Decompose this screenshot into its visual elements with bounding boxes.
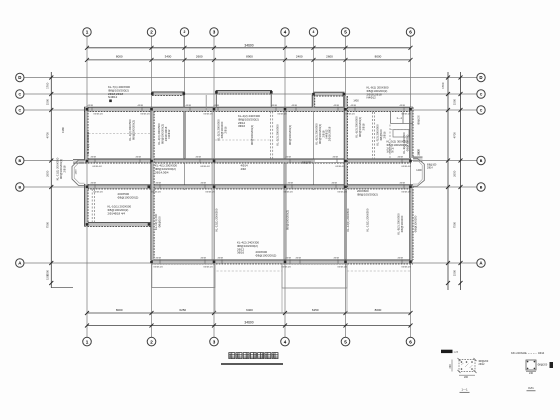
- svg-text:4Φ18: 4Φ18: [296, 257, 302, 260]
- svg-text:4Φ18: 4Φ18: [333, 156, 339, 159]
- left dimension line: [50, 72, 52, 288]
- svg-text:2: 2: [150, 339, 153, 344]
- right axis circle B: [477, 156, 485, 164]
- svg-text:1380: 1380: [61, 127, 65, 133]
- bay window left on axis 1: [72, 160, 85, 185]
- svg-text:4Φ18: 4Φ18: [88, 104, 94, 107]
- svg-text:4Φ14: 4Φ14: [538, 352, 545, 355]
- partition wall axis 3 middle: [212, 163, 214, 185]
- dashed beam line below bar end x=272: [271, 111, 273, 159]
- svg-text:4Φ18: 4Φ18: [218, 257, 224, 260]
- svg-text:6Φ18 4/4: 6Φ18 4/4: [282, 265, 292, 268]
- svg-text:1: 1: [86, 30, 89, 35]
- svg-text:400: 400: [449, 364, 452, 369]
- roof beam bar on axis 1/C left: [152, 92, 185, 96]
- drawing title (hanzi strokes): [229, 352, 279, 359]
- beam on axis 2 vertical: [151, 111, 154, 260]
- svg-text:6Φ18 4/4: 6Φ18 4/4: [336, 165, 346, 168]
- svg-text:6Φ18 4/4: 6Φ18 4/4: [338, 265, 348, 268]
- rotated text axis 2 below B: [154, 213, 161, 230]
- top dimension line 1: [87, 47, 411, 49]
- svg-text:2: 2: [184, 30, 186, 34]
- svg-text:4: 4: [284, 339, 287, 344]
- svg-text:B: B: [480, 159, 483, 163]
- rotated text along axis 4a: [315, 123, 329, 145]
- rotated text room 5-6 middle: [376, 124, 387, 146]
- left dimension closing line bottom: [51, 287, 73, 289]
- svg-text:5: 5: [344, 339, 347, 344]
- svg-text:2650: 2650: [452, 170, 456, 177]
- dashed stair beam line: [92, 189, 94, 223]
- dashed line below beam A right: [347, 270, 410, 272]
- detail 1 rebar dots: [461, 361, 473, 370]
- top axis circle 6: [406, 28, 414, 36]
- top axis circle 1: [83, 28, 91, 36]
- svg-text:4Φ18: 4Φ18: [156, 257, 162, 260]
- svg-text:8000: 8000: [116, 308, 123, 312]
- svg-text:1—1: 1—1: [397, 116, 403, 120]
- svg-text:6Φ18 4/4: 6Φ18 4/4: [93, 165, 103, 168]
- top sub-axis circle: [309, 28, 317, 36]
- right dimension ticks: [446, 76, 450, 80]
- svg-text:1700: 1700: [441, 82, 445, 89]
- left axis circle A: [16, 259, 24, 267]
- detail 2 dark bar mark: [550, 362, 554, 368]
- svg-text:6Φ18 4/4: 6Φ18 4/4: [94, 113, 104, 116]
- axis line 3 vertical: [213, 36, 215, 337]
- bottom axis circle 3: [210, 337, 219, 346]
- svg-text:3: 3: [213, 30, 216, 35]
- svg-text:7500: 7500: [452, 221, 456, 228]
- svg-text:1500: 1500: [46, 274, 50, 280]
- svg-text:2Φ18;3Φ18: 2Φ18;3Φ18: [328, 126, 332, 141]
- svg-text:4Φ18: 4Φ18: [398, 156, 404, 159]
- dashed partition x=373.5: [372, 112, 374, 159]
- axis line 4 vertical: [284, 36, 286, 337]
- svg-text:KL-12(1) 200X500: KL-12(1) 200X500: [215, 208, 219, 231]
- svg-text:4Φ18: 4Φ18: [351, 104, 357, 107]
- support rebar labels and ticks on beams: [88, 104, 94, 111]
- short wall segments connecting 1/C bars to beam C: [183, 94, 185, 107]
- dashed line below duct room: [391, 129, 414, 131]
- svg-text:Φ8@100/200(2): Φ8@100/200(2): [131, 120, 135, 140]
- svg-text:4: 4: [313, 30, 315, 34]
- svg-text:6Φ18 4/4: 6Φ18 4/4: [402, 191, 412, 194]
- sub-axis line vertical x=313.5: [313, 36, 315, 190]
- svg-text:4Φ18: 4Φ18: [400, 181, 406, 184]
- right dimension line inner: [447, 72, 449, 290]
- axis line 2 vertical: [151, 36, 153, 337]
- bay window right on axis 6: [413, 158, 424, 186]
- rotated text in room 2-2a: [157, 123, 171, 145]
- rotated text room 4a-5: [328, 126, 332, 141]
- svg-text:2Φ16: 2Φ16: [382, 131, 386, 138]
- detail 1 left dimension line: [451, 360, 453, 372]
- rotated text room 5-6 left: [355, 116, 366, 138]
- detail 1 heading (bold dark blob): [441, 350, 453, 353]
- svg-text:B: B: [18, 159, 21, 163]
- svg-text:Φ8@200: Φ8@200: [538, 364, 548, 367]
- svg-text:6Φ18 4/4: 6Φ18 4/4: [152, 191, 162, 194]
- bottom dimension ticks: [85, 311, 89, 315]
- svg-text:4700: 4700: [45, 132, 49, 139]
- svg-text:1:25: 1:25: [454, 352, 459, 354]
- svg-text:8000: 8000: [375, 308, 382, 312]
- small box room below duct: [393, 130, 409, 137]
- svg-text:2400: 2400: [296, 55, 303, 59]
- roof beam bar on axis 1/C right: [314, 92, 345, 96]
- svg-text:B: B: [480, 185, 483, 189]
- svg-text:2650: 2650: [45, 170, 49, 177]
- right axis circle C: [477, 90, 485, 98]
- rotated annotation left of bay window: [56, 157, 67, 180]
- right dimension line outer: [460, 72, 462, 290]
- svg-text:6400: 6400: [246, 308, 253, 312]
- right axis circle D: [477, 73, 485, 81]
- svg-text:4: 4: [284, 30, 287, 35]
- balcony outline right: [282, 264, 347, 288]
- svg-text:8900: 8900: [246, 55, 253, 59]
- svg-text:34600: 34600: [244, 43, 253, 47]
- small duct room next to axis 6: [391, 112, 414, 124]
- svg-text:2Φ20: 2Φ20: [417, 148, 421, 155]
- svg-text:4Φ18: 4Φ18: [136, 156, 142, 159]
- rotated text along axis 5 lower: [346, 208, 350, 231]
- dashed beam line across room 3-4: [215, 139, 271, 141]
- svg-text:4Φ18: 4Φ18: [272, 104, 278, 107]
- svg-text:4Φ18: 4Φ18: [332, 181, 338, 184]
- detail 2 rebar dots: [527, 361, 535, 369]
- svg-text:D: D: [18, 75, 21, 80]
- left axis circle B: [16, 183, 24, 191]
- svg-text:4Φ18: 4Φ18: [214, 104, 220, 107]
- bottom axis circle 2: [147, 337, 156, 346]
- detail 1 beam section rectangle: [459, 360, 475, 372]
- beam stub through right bay window on axis 1/B: [413, 157, 423, 161]
- svg-text:Φ8@100/200: Φ8@100/200: [414, 215, 418, 232]
- svg-text:N4Φ12: N4Φ12: [167, 129, 171, 138]
- top axis circle 3: [210, 28, 218, 36]
- left axis circle D: [16, 73, 24, 81]
- detail 2 heading leader dashes: [523, 352, 537, 354]
- rotated text along axis 2 left: [128, 119, 135, 141]
- svg-text:6Φ18 4/4: 6Φ18 4/4: [284, 191, 294, 194]
- rotated text along axis 6 lower: [397, 213, 404, 235]
- svg-text:6Φ18 4/4: 6Φ18 4/4: [141, 113, 151, 116]
- thin partition line above C between 2a and 3: [205, 95, 207, 110]
- svg-text:4Φ18: 4Φ18: [334, 257, 340, 260]
- bottom dimension line 1: [87, 312, 411, 314]
- svg-text:4700: 4700: [452, 132, 456, 139]
- left wall beam lower on axis 1: [85, 184, 88, 226]
- bottom axis circle 4: [281, 337, 290, 346]
- svg-text:KL-3(3) 200X500: KL-3(3) 200X500: [276, 124, 280, 146]
- rotated text along axis 4 lower: [286, 210, 290, 230]
- svg-text:4Φ18: 4Φ18: [156, 181, 162, 184]
- thin double-line section of 1/B beam between axes 4a and 5: [315, 159, 344, 162]
- svg-text:2Φ16: 2Φ16: [223, 126, 227, 133]
- beam on axis 5 vertical: [344, 96, 347, 189]
- svg-text:3400: 3400: [165, 55, 172, 59]
- right axis circle C: [477, 106, 485, 114]
- bottom axis circle 6: [406, 337, 415, 346]
- left dimension ticks: [49, 76, 53, 80]
- svg-text:6Φ18 4/4: 6Φ18 4/4: [402, 265, 412, 268]
- axis line 1 vertical: [86, 36, 88, 337]
- svg-text:Φ8@100/200(2): Φ8@100/200(2): [250, 125, 254, 145]
- svg-text:6250: 6250: [312, 308, 319, 312]
- svg-text:6: 6: [409, 30, 412, 35]
- svg-text:6Φ18 4/4: 6Φ18 4/4: [278, 113, 288, 116]
- svg-text:5: 5: [344, 30, 347, 35]
- beam KL on axis A: [152, 260, 414, 264]
- svg-text:Φ8@100/200: Φ8@100/200: [400, 215, 404, 232]
- svg-text:200: 200: [464, 376, 469, 379]
- svg-text:Φ8@100/200(2): Φ8@100/200(2): [286, 210, 290, 230]
- svg-text:2600: 2600: [196, 55, 203, 59]
- partition wall axis 4 lower: [284, 189, 286, 260]
- svg-text:240: 240: [529, 372, 534, 375]
- svg-text:4Φ18: 4Φ18: [196, 156, 202, 159]
- svg-text:4Φ18: 4Φ18: [91, 181, 97, 184]
- top axis circle 5: [341, 28, 349, 36]
- svg-text:6Φ18 4/4: 6Φ18 4/4: [204, 113, 214, 116]
- rotated text right of axis 4: [288, 125, 292, 145]
- svg-text:B: B: [18, 185, 21, 189]
- svg-text:Φ8@100/200(2): Φ8@100/200(2): [288, 125, 292, 145]
- beam stub through left bay window on axis 1/B: [73, 160, 85, 164]
- left axis circle C: [16, 106, 24, 114]
- top axis circle 2: [147, 28, 155, 36]
- svg-text:4Φ18: 4Φ18: [286, 257, 292, 260]
- partition wall axis 5 lower: [344, 189, 346, 260]
- svg-text:C: C: [18, 108, 21, 112]
- svg-text:6Φ18 4/4: 6Φ18 4/4: [338, 191, 348, 194]
- axis line A horizontal: [25, 262, 478, 264]
- detail 2 column section square: [526, 360, 536, 370]
- svg-text:4Φ18: 4Φ18: [201, 181, 207, 184]
- rotated text along axis 3: [217, 119, 228, 141]
- title underline: [221, 363, 283, 365]
- svg-text:4Φ18: 4Φ18: [186, 104, 192, 107]
- bottom axis circle 1: [83, 337, 92, 346]
- left axis circle C: [16, 90, 24, 98]
- svg-text:1500: 1500: [45, 98, 49, 105]
- balcony outline left: [152, 264, 215, 288]
- right wall beam lower on axis 6: [410, 186, 413, 260]
- svg-text:6Φ18 4/4: 6Φ18 4/4: [204, 265, 214, 268]
- svg-text:6Φ18 4/4: 6Φ18 4/4: [402, 165, 412, 168]
- svg-text:2: 2: [150, 30, 153, 35]
- rotated text lower right room: [366, 208, 370, 231]
- svg-text:4Φ18: 4Φ18: [201, 257, 207, 260]
- left wall beam upper on axis 1: [85, 107, 88, 160]
- svg-text:6Φ18 4/4: 6Φ18 4/4: [94, 191, 104, 194]
- svg-text:4Φ18: 4Φ18: [91, 156, 97, 159]
- svg-text:1500: 1500: [452, 98, 456, 105]
- extension line below balcony left: [214, 288, 216, 314]
- svg-text:2Φ18: 2Φ18: [62, 165, 66, 172]
- axis line B horizontal: [25, 160, 478, 162]
- svg-text:4Φ18: 4Φ18: [334, 104, 340, 107]
- rotated text along axis 4 upper: [276, 124, 280, 146]
- svg-text:1400: 1400: [76, 169, 78, 175]
- svg-text:8000: 8000: [116, 55, 123, 59]
- rotated text along axis 6 upper: [402, 132, 409, 154]
- svg-text:1400: 1400: [416, 169, 422, 172]
- partition wall axis 3 upper: [212, 111, 214, 159]
- axis line C horizontal: [25, 109, 478, 111]
- svg-text:4Φ18: 4Φ18: [138, 104, 144, 107]
- dashed line between balconies: [217, 270, 283, 272]
- svg-text:6250: 6250: [179, 308, 186, 312]
- bottom dimension line 2: [87, 325, 411, 327]
- svg-text:KL-11(1) 200X500: KL-11(1) 200X500: [86, 131, 90, 154]
- svg-text:C: C: [480, 108, 483, 112]
- svg-text:8000: 8000: [375, 55, 382, 59]
- svg-text:4Φ18: 4Φ18: [398, 257, 404, 260]
- svg-text:2600: 2600: [326, 55, 333, 59]
- axis line C horizontal: [25, 93, 478, 95]
- svg-text:C: C: [480, 92, 483, 96]
- svg-text:4Φ18: 4Φ18: [286, 156, 292, 159]
- svg-text:Φ8@100: Φ8@100: [157, 216, 161, 228]
- svg-text:Φ6@200: Φ6@200: [302, 162, 312, 165]
- rotated text right of wall lower: [414, 215, 418, 232]
- right axis circle A: [477, 259, 485, 267]
- svg-text:D: D: [479, 75, 482, 80]
- detail 1 corner dimension ticks: [458, 358, 477, 373]
- svg-text:3Φ18: 3Φ18: [361, 123, 365, 130]
- svg-text:1500: 1500: [452, 269, 456, 276]
- beam KL on axis C: [84, 107, 413, 111]
- partition wall axis 4 upper: [284, 111, 286, 159]
- top axis circle 4: [281, 28, 289, 36]
- svg-text:KL-13(1) 200X500: KL-13(1) 200X500: [366, 208, 370, 231]
- svg-text:Φ8@100: Φ8@100: [418, 115, 421, 125]
- short beam axis 1/C-bar to C: [312, 95, 315, 107]
- extension line below balcony right: [346, 288, 348, 313]
- svg-text:4Φ18: 4Φ18: [292, 104, 298, 107]
- svg-text:1450: 1450: [353, 100, 359, 103]
- beam KL on axis B: [85, 185, 414, 189]
- dashed beam line across room 1-2: [89, 133, 151, 135]
- partition wall axis 3 lower: [212, 189, 214, 260]
- top sub-axis circle: [180, 28, 188, 36]
- axis line D horizontal: [25, 77, 478, 79]
- svg-text:6: 6: [409, 339, 412, 344]
- partition wall on axis 2a: [183, 111, 185, 159]
- svg-text:6Φ18 4/4: 6Φ18 4/4: [201, 165, 211, 168]
- svg-text:C: C: [18, 92, 21, 96]
- dashed partition x=390 lower: [389, 125, 391, 160]
- sub-axis line vertical x=184.5: [184, 36, 186, 190]
- axis line B horizontal: [25, 186, 478, 188]
- svg-text:KZ1 240X240: KZ1 240X240: [511, 352, 527, 355]
- svg-text:6Φ18 4/4: 6Φ18 4/4: [206, 191, 216, 194]
- beam KL on axis 1/B: [85, 159, 411, 163]
- svg-text:KZ1: KZ1: [528, 386, 534, 390]
- svg-text:34600: 34600: [244, 320, 253, 324]
- svg-text:3: 3: [213, 339, 216, 344]
- top dimension line 2: [87, 59, 411, 61]
- svg-text:KL-12(1) 200X500: KL-12(1) 200X500: [346, 208, 350, 231]
- svg-text:1700: 1700: [45, 82, 49, 89]
- rotated text room 3-4 left: [250, 125, 254, 145]
- svg-text:1—1: 1—1: [461, 388, 468, 392]
- top dimension ticks: [85, 46, 89, 50]
- svg-text:6Φ18 4/4: 6Φ18 4/4: [346, 113, 356, 116]
- right axis circle B: [477, 183, 485, 191]
- stair block bottom beam: [85, 223, 153, 227]
- left axis circle B: [16, 156, 24, 164]
- partition wall axis 4 middle: [284, 163, 286, 185]
- right wall beam upper on axis 6: [410, 107, 413, 158]
- detail 1 hatch strokes: [461, 363, 473, 368]
- rotated text along axis 3 lower: [215, 208, 219, 231]
- column sections (dark squares) at beam junctions: [86, 108, 89, 111]
- bottom axis circle 5: [341, 337, 350, 346]
- svg-text:6Φ18 4/4: 6Φ18 4/4: [154, 265, 164, 268]
- svg-text:4Φ18: 4Φ18: [288, 181, 294, 184]
- rotated text along axis 1 wall: [86, 131, 90, 154]
- svg-text:1: 1: [86, 339, 89, 344]
- axis line 6 vertical: [410, 36, 412, 337]
- svg-text:4Φ18: 4Φ18: [400, 104, 406, 107]
- axis line 5 vertical: [345, 36, 347, 337]
- svg-text:7500: 7500: [45, 221, 49, 228]
- extension line below balcony right-left edge: [281, 288, 283, 313]
- roof beam bar on axis 1/C middle: [216, 90, 272, 94]
